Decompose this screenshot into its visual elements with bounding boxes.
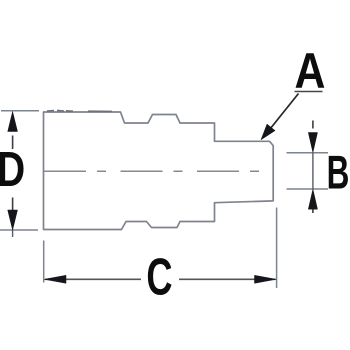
dimension C arrow left — [44, 275, 66, 283]
dimension C arrow right — [255, 275, 277, 283]
svg-text:D: D — [0, 143, 25, 197]
dimension B arrow down — [308, 133, 317, 153]
leader line for A — [268, 94, 299, 132]
svg-text:C: C — [146, 249, 172, 306]
dimension C extension line right — [276, 208, 278, 289]
dimension D extension line top — [1, 110, 39, 112]
dimension C line right segment — [179, 278, 276, 280]
thread crest marks on top edge — [47, 110, 112, 111]
dimension B extension line bottom — [287, 188, 329, 190]
centerline — [44, 170, 273, 172]
dimension B arrow up — [308, 189, 317, 209]
dimension C line left segment — [45, 278, 141, 280]
svg-text:A: A — [295, 43, 326, 99]
dimension D extension line bottom — [0, 229, 38, 231]
svg-text:B: B — [327, 145, 350, 199]
dimension D line lower overshoot — [12, 230, 14, 238]
dimension D line lower dash — [12, 198, 14, 212]
dimension C extension line left — [43, 241, 45, 283]
dimension D line upper dash — [12, 136, 14, 150]
dimension D arrow up — [8, 112, 18, 132]
dimension B line top dash — [312, 121, 314, 129]
leader arrowhead for A — [261, 124, 275, 140]
dimension B extension line top — [287, 152, 329, 154]
dimension B line bottom dash — [312, 209, 314, 213]
label A underline — [295, 91, 323, 93]
dimension B line middle — [312, 153, 314, 189]
fitting body outline — [44, 112, 274, 230]
dimension D arrow down — [8, 210, 18, 230]
